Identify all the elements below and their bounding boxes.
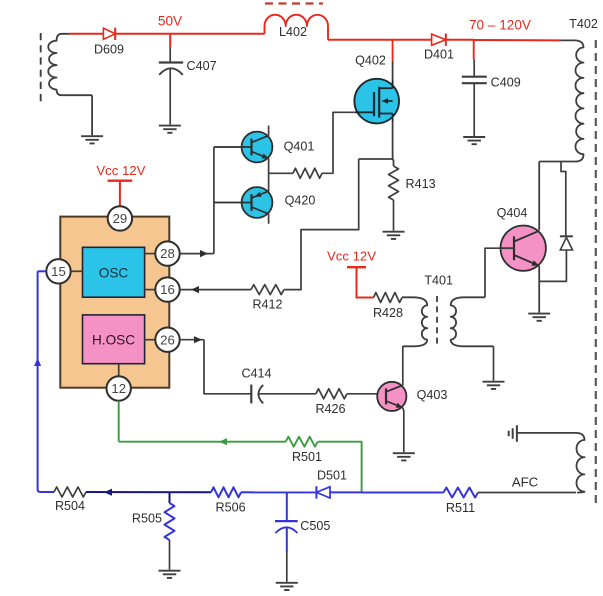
wire red bus L402 to D401 [328, 39, 431, 41]
wire OSC to pin16 [145, 289, 156, 291]
ground (R505) [159, 571, 181, 578]
resistor R504 [54, 487, 86, 497]
capacitor C409 [462, 60, 487, 137]
svg-text:R511: R511 [446, 501, 475, 515]
svg-text:28: 28 [160, 246, 175, 261]
wire Q401 collector stub [268, 126, 270, 136]
node 50V [158, 13, 182, 28]
svg-text:16: 16 [160, 282, 175, 297]
wire pin26 down to C414 [204, 340, 251, 394]
wire drain to Q402 [392, 61, 394, 80]
transformer T401 primary winding [402, 297, 427, 346]
transformer T402 core (dashed) [595, 40, 597, 505]
wire R505 to ground [169, 540, 171, 570]
label R505 [132, 511, 162, 525]
wire damper-diode branch [561, 162, 566, 237]
wire pin15 to OSC [71, 270, 83, 272]
svg-text:L402: L402 [279, 25, 307, 39]
label D609 [94, 42, 124, 56]
wire Q402 source [392, 122, 395, 166]
svg-text:R501: R501 [292, 450, 322, 464]
wire driver resistor to gate [322, 112, 355, 173]
svg-text:T402: T402 [569, 17, 598, 31]
diode D609 [103, 28, 115, 40]
label L402 [279, 25, 307, 39]
wire Q403 collector to T401 [402, 346, 404, 385]
transformer T402 AFC winding [577, 433, 585, 493]
wire pin28 to driver bases [180, 250, 214, 257]
label AFC [512, 475, 539, 490]
svg-text:Vcc 12V: Vcc 12V [327, 249, 376, 264]
capacitor C414 [251, 385, 316, 404]
wire source to feedback branch [359, 158, 393, 160]
node 70-120V [469, 18, 531, 33]
svg-text:R506: R506 [216, 500, 246, 514]
svg-text:Q404: Q404 [497, 206, 528, 220]
svg-text:C414: C414 [241, 367, 271, 381]
label R506 [216, 500, 246, 514]
svg-text:26: 26 [160, 332, 175, 347]
svg-text:C407: C407 [187, 59, 217, 73]
wire H.OSC to pin12 [118, 364, 120, 377]
wire 70V junction stub [473, 40, 475, 60]
wire red bus D401 to T402 [446, 39, 561, 42]
label Vcc 12V (pin29) [96, 163, 145, 178]
svg-text:Q403: Q403 [417, 388, 448, 402]
resistor R511 [444, 488, 479, 498]
wire R501 to AFC node [318, 442, 362, 493]
Vcc supply bar (R428) [347, 267, 374, 297]
wire Q404 base to T401 [485, 248, 514, 297]
wire Q403 emitter to ground [403, 408, 404, 453]
svg-text:H.OSC: H.OSC [92, 333, 135, 348]
resistor R412 [251, 285, 284, 295]
ground (R413) [383, 232, 405, 239]
chassis ground (AFC winding) [509, 425, 517, 441]
wire OSC to pin28 [145, 253, 156, 255]
label R413 [406, 177, 436, 191]
wire drain stub (red) [392, 40, 394, 61]
svg-text:AFC: AFC [512, 475, 539, 490]
resistor R505 [165, 503, 175, 540]
resistor R413 [389, 166, 399, 200]
transistor Q403 [377, 382, 406, 411]
svg-text:R504: R504 [55, 499, 85, 513]
wire AFC top lead [517, 432, 577, 434]
svg-text:C505: C505 [300, 519, 330, 533]
ground (primary winding) [81, 136, 103, 143]
resistor R501 [286, 437, 318, 447]
wire H.OSC to pin26 [145, 339, 156, 341]
wire T401 secondary to ground [493, 346, 495, 380]
svg-text:15: 15 [51, 264, 66, 279]
svg-text:C409: C409 [491, 75, 521, 89]
transformer primary winding [48, 34, 92, 95]
wire primary-bottom to ground [91, 95, 93, 135]
pin 12 [107, 376, 131, 400]
label D401 [424, 48, 454, 62]
svg-text:29: 29 [113, 211, 128, 226]
diode D401 [432, 34, 446, 46]
label C505 [300, 519, 330, 533]
inductor L402 core (dashed red) [265, 2, 323, 4]
transformer T401 core (dashed) [436, 296, 438, 348]
wire R505 junction stub [169, 492, 171, 503]
resistor R428 [374, 293, 403, 303]
svg-text:70 – 120V: 70 – 120V [469, 18, 531, 33]
wire R506 to D501 [241, 491, 316, 493]
wire driver base rail [213, 147, 215, 254]
svg-text:D609: D609 [94, 42, 124, 56]
resistor R506 [211, 487, 241, 497]
pin 16 [155, 277, 179, 301]
green feedback wire [119, 438, 286, 445]
svg-text:R426: R426 [315, 402, 345, 416]
svg-text:Q401: Q401 [284, 140, 315, 154]
svg-text:T401: T401 [424, 273, 453, 287]
svg-text:R412: R412 [252, 297, 282, 311]
IC block [60, 217, 169, 388]
OSC block [83, 247, 145, 297]
transformer primary core (dashed) [40, 33, 42, 105]
wire pin26 out [180, 336, 204, 343]
label C414 [241, 367, 271, 381]
wire red 50V bus [70, 33, 265, 35]
label T402 [569, 17, 598, 31]
wire Q404 emitter to ground [538, 266, 540, 313]
transistor Q401 [214, 132, 273, 163]
wire R426 to Q403 base [347, 393, 386, 395]
transistor Q404 [501, 226, 546, 271]
label T401 [424, 273, 453, 287]
diode D501 [316, 486, 330, 498]
driver resistor (unlabeled) [293, 168, 322, 178]
svg-text:Vcc 12V: Vcc 12V [96, 163, 145, 178]
label R426 [315, 402, 345, 416]
svg-text:OSC: OSC [99, 265, 129, 280]
svg-text:R505: R505 [132, 511, 162, 525]
Vcc supply bar (pin29) [108, 181, 133, 206]
pin 26 [155, 328, 179, 352]
mosfet Q402 [354, 79, 399, 124]
wire pin12 green [118, 401, 120, 442]
capacitor C407 [159, 48, 183, 125]
wire Q420 collector stub [268, 214, 270, 224]
inductor L402 [265, 15, 329, 40]
label Q404 [497, 206, 528, 220]
ground (C409) [463, 137, 485, 144]
wire damper diode to emitter rail [539, 250, 566, 281]
label R428 [373, 306, 403, 320]
label Q403 [417, 388, 448, 402]
label R504 [55, 499, 85, 513]
label Q420 [285, 194, 316, 208]
wire D501 to AFC node [330, 491, 362, 493]
transformer T401 secondary winding [451, 297, 494, 346]
svg-text:12: 12 [111, 381, 126, 396]
transformer T402 secondary winding [539, 40, 583, 161]
label Q401 [284, 140, 315, 154]
wire 50V junction stub [169, 34, 171, 48]
pin 28 [155, 241, 179, 265]
svg-text:R428: R428 [373, 306, 403, 320]
ground (Q403) [393, 453, 415, 460]
wire Q404 collector [538, 162, 540, 231]
wire R412 to pin16 [180, 286, 251, 293]
transistor Q420 [214, 187, 273, 218]
pin 15 [46, 259, 70, 283]
label R412 [252, 297, 282, 311]
capacitor C505 [275, 492, 298, 581]
label R501 [292, 450, 322, 464]
label C407 [187, 59, 217, 73]
label Vcc 12V (R428) [327, 249, 376, 264]
label D501 [317, 469, 347, 483]
svg-text:R413: R413 [406, 177, 436, 191]
ground (C505) [276, 583, 298, 590]
wire Q401/Q420 emitter junction [268, 158, 270, 192]
wire AFC node to R511 [362, 492, 444, 494]
svg-text:D501: D501 [317, 469, 347, 483]
svg-text:D401: D401 [424, 48, 454, 62]
wire R413 to ground [393, 200, 395, 231]
svg-text:Q420: Q420 [285, 194, 316, 208]
label R511 [446, 501, 475, 515]
label Q402 [355, 53, 386, 67]
wire feedback to R412 [284, 159, 359, 290]
wire R504 to R506 (navy) [86, 489, 211, 496]
svg-text:Q402: Q402 [355, 53, 386, 67]
label C409 [491, 75, 521, 89]
pin 29 [108, 206, 132, 230]
ground (Q404 emitter) [528, 314, 550, 321]
H.OSC block [83, 315, 145, 364]
wire R511 to AFC winding [478, 492, 576, 494]
wire driver output [269, 172, 293, 174]
ground (T401) [483, 382, 505, 389]
resistor R426 [316, 389, 347, 399]
svg-text:50V: 50V [158, 13, 182, 28]
ground (C407) [159, 126, 181, 133]
wire pin15 blue [34, 271, 54, 492]
damper diode (unlabeled) [560, 236, 573, 250]
